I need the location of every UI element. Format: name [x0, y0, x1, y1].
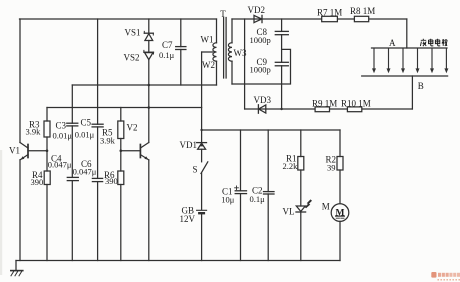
LED VL [296, 206, 305, 211]
svg-text:12V: 12V [180, 214, 196, 224]
svg-text:W2: W2 [202, 60, 215, 70]
wire top rail left section [20, 18, 217, 20]
capacitor C8 [281, 19, 283, 31]
svg-text:T: T [220, 9, 226, 19]
winding W1/W2 primary [216, 19, 218, 43]
zener VS1 [144, 32, 153, 34]
watermark logo [431, 272, 460, 278]
svg-text:1000p: 1000p [250, 35, 271, 45]
svg-text:3.9k: 3.9k [100, 135, 116, 145]
svg-text:R9 1M: R9 1M [312, 99, 337, 109]
svg-text:V1: V1 [9, 146, 20, 156]
electrode A bar [372, 47, 448, 49]
svg-text:390: 390 [105, 176, 118, 186]
svg-text:0.1μ: 0.1μ [159, 50, 175, 60]
svg-text:A: A [389, 38, 396, 48]
svg-text:C5: C5 [81, 118, 92, 128]
resistor R1 [300, 130, 302, 157]
svg-text:C3: C3 [56, 121, 67, 131]
svg-text:VS2: VS2 [124, 52, 140, 62]
capacitor C5 [97, 19, 99, 124]
switch S [201, 162, 208, 174]
motor M [331, 204, 349, 222]
resistor R7 [322, 16, 338, 21]
capacitor C1 [240, 130, 242, 191]
resistor R9 [315, 107, 329, 112]
wire feedback line y=85 [72, 84, 216, 86]
arrow 4 [417, 48, 419, 69]
diode VD1 [197, 142, 207, 144]
svg-text:3.9k: 3.9k [26, 126, 42, 136]
resistor R2 [339, 130, 341, 157]
wire electrode A feed [406, 19, 408, 48]
wire V2 base [121, 150, 141, 152]
wire V1 emitter column [19, 160, 21, 261]
resistor R10 [347, 107, 361, 112]
capacitor C7 [180, 19, 182, 47]
node V1 base junction [46, 149, 49, 152]
capacitor C2 [267, 130, 269, 192]
scan smudge left edge [0, 150, 2, 275]
capacitor C4 [71, 126, 73, 177]
svg-text:VD2: VD2 [248, 5, 266, 15]
resistor R4 [46, 151, 48, 171]
wire W3 bottom to C8/C9 midpoint [232, 49, 291, 84]
transformer T core [223, 18, 225, 79]
wire lower rail y=129.5 [202, 129, 340, 131]
resistor R8 [354, 16, 368, 21]
diode VD2 [254, 15, 262, 22]
svg-text:W1: W1 [201, 34, 214, 44]
svg-text:S: S [193, 165, 198, 175]
svg-text:1000p: 1000p [250, 65, 271, 75]
label discharge electrode hanzi [420, 39, 447, 46]
wire V1 collector column [19, 19, 21, 143]
arrow 2 [388, 48, 390, 69]
polarity plus C1 [235, 186, 239, 190]
resistor R6 [120, 151, 122, 171]
watermark dotted line [438, 279, 460, 281]
node V2 base junction [120, 149, 123, 152]
transistor V1 [27, 145, 29, 158]
svg-text:VD1: VD1 [180, 140, 198, 150]
svg-text:10μ: 10μ [221, 195, 235, 205]
arrow 3 [402, 48, 404, 69]
svg-text:0.047μ: 0.047μ [73, 166, 97, 176]
capacitor C6 [97, 127, 99, 178]
arrow 6 [445, 48, 447, 69]
svg-text:R10 1M: R10 1M [341, 99, 371, 109]
node lower rail junction [200, 129, 202, 131]
ground [15, 261, 17, 271]
svg-text:VS1: VS1 [125, 27, 141, 37]
LABELS-LEFT [9, 27, 173, 180]
svg-text:B: B [418, 81, 424, 91]
svg-text:R8 1M: R8 1M [350, 6, 375, 16]
wire +12V rail y=107.5 [47, 107, 202, 109]
zener VS2 [144, 51, 154, 53]
svg-text:M: M [322, 201, 330, 211]
resistor R5 [120, 108, 122, 122]
discharge arrows [372, 48, 448, 73]
battery GB [197, 209, 207, 211]
capacitor C3 [71, 85, 73, 123]
svg-text:C7: C7 [162, 40, 173, 50]
wire VS / V2 collector column [148, 19, 150, 33]
diode VD3 [257, 105, 259, 113]
winding W3 secondary [231, 19, 233, 43]
wire tap column down [201, 52, 203, 143]
arrow 5 [431, 48, 433, 69]
resistor R3 [46, 108, 48, 122]
wire VD2 bypass column x=244.6 [244, 19, 246, 109]
svg-text:0.1μ: 0.1μ [250, 194, 266, 204]
svg-text:R7 1M: R7 1M [317, 7, 342, 17]
arrow 1 [373, 48, 375, 69]
capacitor C9 [281, 35, 283, 63]
node C9 bottom junction [280, 108, 282, 110]
wire secondary top rail y=19 [232, 18, 407, 20]
electrode B bar [362, 75, 448, 77]
svg-text:V2: V2 [127, 123, 138, 133]
svg-text:2.2k: 2.2k [283, 161, 299, 171]
wire electrode B feed [411, 76, 413, 109]
svg-text:VD3: VD3 [254, 95, 272, 105]
LABELS-MIDDLE [180, 9, 345, 224]
svg-text:0.047μ: 0.047μ [48, 159, 72, 169]
LABELS-RIGHT [248, 5, 424, 109]
node collector-rail crossing [148, 106, 151, 109]
wire secondary bottom rail y=109 [245, 108, 413, 110]
svg-text:0.01μ: 0.01μ [53, 130, 73, 140]
transistor V2 [139, 145, 141, 158]
wire V1 base [28, 150, 47, 152]
wire V2 emitter column [148, 160, 150, 261]
node collector-feedback crossing [148, 84, 151, 87]
LED VL light bolt [305, 199, 312, 208]
svg-text:M: M [336, 209, 345, 219]
svg-text:390: 390 [31, 177, 44, 187]
svg-text:39: 39 [327, 162, 336, 172]
wire W1/W2 tap [202, 51, 213, 53]
svg-text:0.01μ: 0.01μ [75, 129, 95, 139]
wire bottom ground rail [16, 260, 340, 262]
svg-text:VL: VL [283, 206, 295, 216]
